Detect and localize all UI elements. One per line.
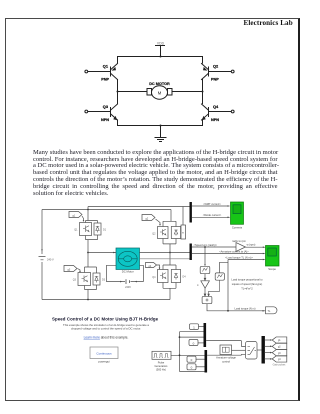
wire Diode current <box>192 213 230 218</box>
svg-text:Q1: Q1 <box>74 229 78 232</box>
diode D1 <box>86 221 107 254</box>
ground <box>155 126 166 142</box>
scope Scope <box>266 246 280 272</box>
transistor Q1 <box>74 210 97 236</box>
transistor Q4 <box>152 253 176 283</box>
svg-text:Currents: Currents <box>232 226 243 230</box>
bottom rail wire <box>42 299 170 301</box>
DC Motor block <box>116 248 140 274</box>
svg-text:g2: g2 <box>146 218 149 221</box>
gain rad/s to rpm <box>232 239 246 252</box>
paragraph line 6 <box>33 183 278 190</box>
wire speed wm <box>192 243 236 247</box>
constant block c4 <box>187 364 205 370</box>
svg-text:D1: D1 <box>103 229 107 232</box>
svg-text:Speed Control of a DC Motor Us: Speed Control of a DC Motor Using BJT H-… <box>52 316 159 321</box>
paragraph line 7 <box>33 190 278 197</box>
From tag g4 <box>146 263 161 270</box>
svg-text:Continuous: Continuous <box>96 352 112 356</box>
svg-text:<Diode current>: <Diode current> <box>203 213 222 217</box>
svg-text:g4: g4 <box>278 359 281 361</box>
transistor Q4 <box>202 104 235 122</box>
block square u^2 <box>200 266 210 273</box>
learn more link <box>84 335 129 339</box>
wire motor A- <box>140 252 191 254</box>
title <box>52 316 159 321</box>
paragraph line 5 <box>33 176 278 183</box>
svg-text:Armature voltage: Armature voltage <box>216 356 236 360</box>
paragraph line 1 <box>33 149 278 156</box>
wire motor m output <box>140 258 191 260</box>
wire pulse to muxes <box>171 332 205 372</box>
DC source V1 240V <box>39 210 55 300</box>
wire w rpm <box>246 243 266 248</box>
block sum <box>202 280 220 303</box>
svg-text:Q4: Q4 <box>152 276 156 279</box>
svg-text:g3: g3 <box>68 269 71 272</box>
constant block c1 <box>190 324 204 330</box>
motor wires <box>118 91 203 93</box>
svg-text:Load torque (N m): Load torque (N m) <box>234 306 255 310</box>
right column wire <box>202 57 204 104</box>
transistor Q3 <box>85 104 118 122</box>
diode D2 <box>163 221 186 253</box>
svg-text:rad/s to rpm: rad/s to rpm <box>232 239 246 243</box>
From tag g1 <box>69 212 84 223</box>
svg-text:Gate pulses: Gate pulses <box>273 364 287 367</box>
transistor Q3 <box>73 253 97 286</box>
svg-text:<Load torque TL (N m)>: <Load torque TL (N m)> <box>225 255 253 259</box>
svg-text:D4: D4 <box>183 276 187 279</box>
subtitle <box>63 323 149 331</box>
svg-text:m: m <box>182 232 184 235</box>
mux bar 2 <box>205 350 208 373</box>
svg-text:control: control <box>222 359 230 363</box>
svg-text:<Armature current ia (A)>: <Armature current ia (A)> <box>219 249 249 253</box>
svg-text:square of speed (fan-type): square of speed (fan-type) <box>232 282 263 286</box>
note: load torque text <box>231 277 263 290</box>
wire speed to squarer <box>204 246 206 266</box>
paragraph line 4 <box>33 169 278 176</box>
block abs <box>215 262 228 280</box>
wire armature current <box>192 249 266 254</box>
demux bar <box>257 336 265 364</box>
svg-text:Q3: Q3 <box>73 279 77 282</box>
transistor Q1 <box>85 64 118 82</box>
svg-text:<IGBT current>: <IGBT current> <box>203 202 221 206</box>
left lower column wire <box>117 120 119 126</box>
goto g4 <box>265 356 287 362</box>
paragraph line 2 <box>33 156 278 163</box>
top rail wire <box>118 56 203 58</box>
svg-text:DC Motor: DC Motor <box>122 270 134 274</box>
goto g1 <box>265 337 287 343</box>
svg-text:w (rpm): w (rpm) <box>247 243 256 247</box>
scope Currents <box>231 202 244 230</box>
bus selector motor m <box>190 244 192 261</box>
svg-text:g1: g1 <box>73 215 76 218</box>
svg-text:Load torque proportional to: Load torque proportional to <box>231 277 263 281</box>
svg-text:D3: D3 <box>102 279 106 282</box>
transistor Q2 <box>152 210 176 239</box>
bus selector currents <box>190 202 192 223</box>
diode D3 <box>85 267 106 300</box>
transistor Q2 <box>202 64 235 82</box>
svg-text:chopped voltage and to control: chopped voltage and to control the speed… <box>71 327 141 331</box>
goto tag TL <box>266 307 278 314</box>
svg-text:(500 Hz): (500 Hz) <box>156 368 166 372</box>
svg-text:Generators: Generators <box>155 364 169 368</box>
svg-text:Learn more about this example.: Learn more about this example. <box>84 335 129 339</box>
svg-text:g1: g1 <box>278 340 281 342</box>
armature voltage control block <box>216 345 236 363</box>
svg-text:g3: g3 <box>278 353 281 355</box>
diode D4 <box>163 265 186 300</box>
mux bar 1 <box>204 323 207 347</box>
svg-text:TL=k*w^2: TL=k*w^2 <box>241 286 253 290</box>
field supply loop with source V2 <box>106 265 143 289</box>
constant block c2 <box>189 340 204 346</box>
pulse generator block <box>152 351 171 371</box>
right lower column wire <box>202 120 204 126</box>
powergui block <box>90 347 118 364</box>
DC MOTOR label <box>149 82 170 86</box>
From tag g2 <box>142 215 161 227</box>
goto g2 <box>265 343 287 349</box>
header: Electronics Lab <box>244 19 293 27</box>
svg-text:Q2: Q2 <box>152 233 156 236</box>
constant block c3 <box>187 356 205 362</box>
svg-text:g2: g2 <box>278 347 281 349</box>
motor M1 <box>147 86 172 99</box>
svg-text:240V: 240V <box>125 286 131 289</box>
bottom rail wire <box>118 125 203 127</box>
svg-text:powergui: powergui <box>98 360 110 364</box>
wire load torque out <box>207 260 266 312</box>
gain k <box>197 274 209 288</box>
wire load torque TL <box>225 255 265 260</box>
VDD supply bar <box>156 46 165 57</box>
VDD label <box>157 42 165 46</box>
svg-text:TL: TL <box>268 310 272 313</box>
left column wire <box>117 57 119 104</box>
wire motor A+ <box>88 252 116 254</box>
svg-text:k: k <box>197 283 199 287</box>
svg-text:Scope: Scope <box>268 267 276 271</box>
switch block <box>206 341 257 359</box>
label gate pulses <box>273 364 287 367</box>
From tag g3 <box>64 266 81 274</box>
wire IGBT current <box>192 202 230 207</box>
multimeter block <box>88 207 190 240</box>
svg-text:240 V: 240 V <box>47 258 54 262</box>
top rail wire <box>42 209 171 211</box>
paragraph line 3 <box>33 162 278 169</box>
svg-text:Pulse: Pulse <box>158 360 165 364</box>
svg-text:<Speed wm (rad/s)>: <Speed wm (rad/s)> <box>194 243 218 247</box>
goto g3 <box>265 350 287 356</box>
